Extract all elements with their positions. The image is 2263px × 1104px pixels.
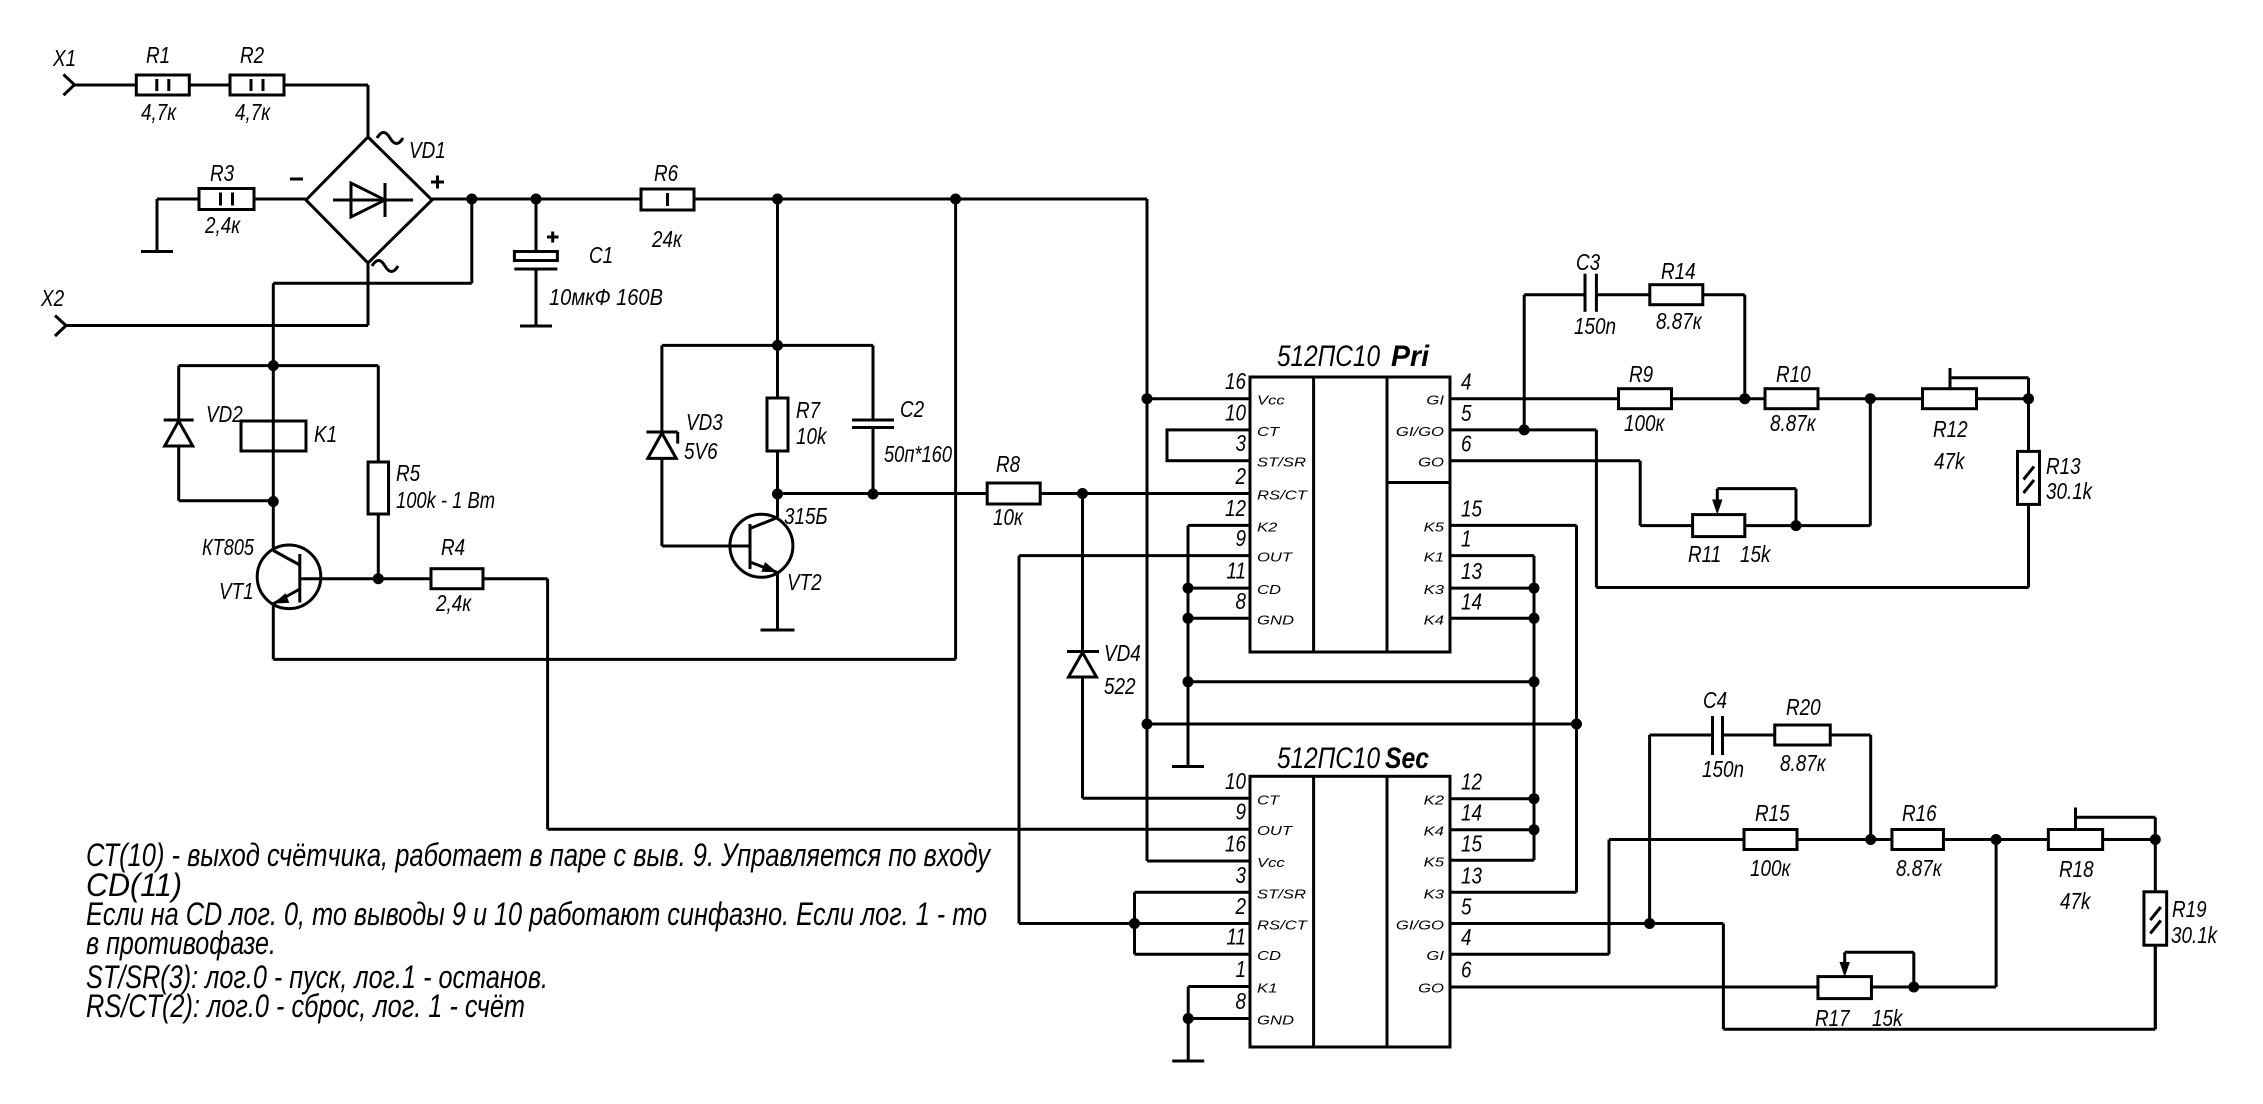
svg-text:9: 9: [1236, 525, 1247, 551]
svg-text:C4: C4: [1703, 687, 1727, 713]
svg-text:12: 12: [1461, 769, 1482, 795]
svg-text:8.87к: 8.87к: [1770, 410, 1817, 436]
svg-text:8.87к: 8.87к: [1780, 750, 1827, 776]
svg-text:X1: X1: [52, 45, 76, 71]
svg-text:100к: 100к: [1624, 410, 1665, 436]
svg-text:X2: X2: [40, 285, 64, 311]
svg-text:47k: 47k: [2060, 888, 2092, 914]
svg-text:11: 11: [1226, 924, 1246, 950]
svg-text:R11: R11: [1688, 541, 1721, 567]
svg-text:10: 10: [1225, 768, 1246, 794]
svg-text:VD3: VD3: [686, 409, 723, 435]
svg-text:CD: CD: [1257, 582, 1281, 597]
svg-text:R10: R10: [1776, 361, 1811, 387]
svg-text:K2: K2: [1257, 519, 1278, 534]
svg-text:R9: R9: [1629, 361, 1653, 387]
svg-text:GI/GO: GI/GO: [1396, 424, 1444, 439]
svg-text:R8: R8: [996, 451, 1020, 477]
svg-text:10: 10: [1225, 399, 1246, 425]
svg-text:K4: K4: [1424, 612, 1444, 627]
svg-text:GO: GO: [1418, 455, 1444, 470]
svg-text:15: 15: [1461, 495, 1482, 521]
svg-text:5: 5: [1461, 894, 1472, 920]
svg-text:10мкФ 160В: 10мкФ 160В: [549, 284, 663, 310]
svg-text:8.87к: 8.87к: [1896, 855, 1943, 881]
svg-text:6: 6: [1461, 957, 1472, 983]
svg-text:1: 1: [1461, 526, 1472, 552]
svg-text:512ПС10: 512ПС10: [1277, 340, 1380, 373]
svg-text:R17: R17: [1815, 1005, 1851, 1031]
svg-text:СТ(10) - выход счётчика, работ: СТ(10) - выход счётчика, работает в паре…: [86, 837, 992, 873]
svg-text:512ПС10: 512ПС10: [1277, 742, 1380, 775]
svg-text:K1: K1: [1424, 550, 1444, 565]
svg-text:CT: CT: [1257, 424, 1281, 439]
svg-text:GI: GI: [1426, 393, 1444, 408]
svg-text:CD: CD: [1257, 948, 1281, 963]
svg-text:R12: R12: [1933, 416, 1968, 442]
svg-text:R2: R2: [240, 42, 264, 68]
svg-text:5: 5: [1461, 400, 1472, 426]
svg-text:30.1k: 30.1k: [2171, 922, 2218, 948]
svg-text:R13: R13: [2046, 453, 2081, 479]
svg-text:10к: 10к: [993, 504, 1024, 530]
svg-text:315Б: 315Б: [784, 503, 828, 529]
svg-text:2,4к: 2,4к: [204, 212, 241, 238]
svg-text:11: 11: [1226, 558, 1246, 584]
svg-text:C2: C2: [900, 396, 924, 422]
svg-text:GO: GO: [1418, 981, 1444, 996]
svg-text:24к: 24к: [651, 226, 683, 252]
svg-text:VT1: VT1: [219, 578, 254, 604]
svg-text:GI: GI: [1426, 948, 1444, 963]
svg-text:K3: K3: [1424, 886, 1445, 901]
svg-text:2: 2: [1235, 893, 1246, 919]
svg-text:6: 6: [1461, 431, 1472, 457]
svg-text:ST/SR: ST/SR: [1257, 455, 1306, 470]
svg-text:3: 3: [1236, 430, 1247, 456]
svg-text:VD1: VD1: [409, 137, 446, 163]
svg-text:16: 16: [1225, 831, 1246, 857]
svg-text:Vcc: Vcc: [1257, 855, 1285, 870]
svg-text:R14: R14: [1661, 258, 1696, 284]
svg-text:14: 14: [1461, 588, 1482, 614]
svg-text:R15: R15: [1755, 800, 1790, 826]
svg-text:8.87к: 8.87к: [1656, 308, 1703, 334]
svg-text:R6: R6: [654, 160, 678, 186]
svg-text:VT2: VT2: [787, 569, 822, 595]
svg-text:C1: C1: [589, 242, 613, 268]
svg-text:GND: GND: [1257, 1013, 1294, 1028]
svg-text:5V6: 5V6: [684, 438, 718, 464]
svg-text:K5: K5: [1424, 519, 1445, 534]
svg-text:Vcc: Vcc: [1257, 393, 1285, 408]
svg-text:50п*160: 50п*160: [884, 441, 952, 467]
svg-text:K5: K5: [1424, 854, 1445, 869]
svg-text:OUT: OUT: [1257, 823, 1293, 838]
svg-text:VD2: VD2: [206, 401, 243, 427]
svg-text:150n: 150n: [1574, 313, 1616, 339]
svg-text:КТ805: КТ805: [202, 534, 254, 560]
svg-text:в противофазе.: в противофазе.: [86, 925, 276, 961]
svg-text:Pri: Pri: [1391, 340, 1430, 373]
svg-text:47k: 47k: [1934, 448, 1966, 474]
svg-text:VD4: VD4: [1104, 640, 1141, 666]
svg-text:R20: R20: [1786, 694, 1821, 720]
svg-text:ST/SR: ST/SR: [1257, 886, 1306, 901]
svg-text:RS/CT: RS/CT: [1257, 918, 1308, 933]
svg-text:2,4к: 2,4к: [435, 590, 472, 616]
svg-text:RS/CT: RS/CT: [1257, 488, 1308, 503]
svg-text:K3: K3: [1424, 582, 1445, 597]
svg-text:K1: K1: [1257, 981, 1277, 996]
svg-text:30.1k: 30.1k: [2046, 478, 2093, 504]
svg-text:4: 4: [1461, 369, 1472, 395]
svg-text:13: 13: [1461, 558, 1482, 584]
svg-text:14: 14: [1461, 800, 1482, 826]
svg-text:13: 13: [1461, 862, 1482, 888]
svg-text:12: 12: [1225, 495, 1246, 521]
svg-text:CT: CT: [1257, 792, 1281, 807]
svg-text:8: 8: [1236, 988, 1247, 1014]
svg-text:15k: 15k: [1872, 1005, 1904, 1031]
svg-text:3: 3: [1236, 862, 1247, 888]
svg-text:4: 4: [1461, 924, 1472, 950]
svg-text:R18: R18: [2059, 856, 2094, 882]
svg-text:K1: K1: [314, 421, 337, 447]
svg-text:16: 16: [1225, 368, 1246, 394]
svg-text:GI/GO: GI/GO: [1396, 918, 1444, 933]
svg-text:K2: K2: [1424, 793, 1445, 808]
svg-text:R7: R7: [796, 397, 821, 423]
svg-text:C3: C3: [1576, 249, 1600, 275]
svg-text:Sec: Sec: [1385, 742, 1429, 775]
svg-text:9: 9: [1236, 799, 1247, 825]
svg-text:2: 2: [1235, 463, 1246, 489]
svg-text:R19: R19: [2172, 896, 2207, 922]
svg-text:K4: K4: [1424, 824, 1444, 839]
svg-text:15: 15: [1461, 830, 1482, 856]
svg-text:OUT: OUT: [1257, 550, 1293, 565]
svg-text:4,7к: 4,7к: [141, 99, 177, 125]
svg-text:150n: 150n: [1702, 756, 1744, 782]
svg-text:100k - 1 Вт: 100k - 1 Вт: [396, 487, 495, 513]
svg-text:R5: R5: [396, 460, 420, 486]
svg-text:R4: R4: [441, 534, 465, 560]
svg-text:R16: R16: [1902, 800, 1937, 826]
svg-text:10k: 10k: [796, 423, 828, 449]
svg-text:RS/CT(2): лог.0 - сброс, лог.: RS/CT(2): лог.0 - сброс, лог. 1 - счёт: [86, 988, 525, 1024]
svg-text:8: 8: [1236, 588, 1247, 614]
svg-text:1: 1: [1236, 956, 1247, 982]
svg-text:4,7к: 4,7к: [235, 99, 271, 125]
svg-text:522: 522: [1104, 673, 1136, 699]
svg-text:GND: GND: [1257, 612, 1294, 627]
svg-text:15k: 15k: [1740, 541, 1772, 567]
svg-text:100к: 100к: [1750, 855, 1791, 881]
svg-text:R3: R3: [210, 160, 234, 186]
svg-text:R1: R1: [146, 42, 170, 68]
